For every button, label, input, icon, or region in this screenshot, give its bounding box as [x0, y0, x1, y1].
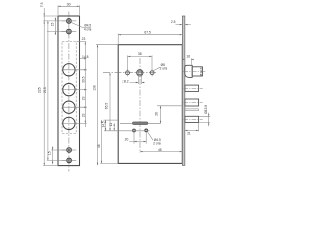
leader dia8 2 holes: [153, 63, 168, 71]
svg-text:2 отв: 2 отв: [153, 141, 161, 145]
cylinder screw hole left: [133, 129, 136, 132]
latch bolt head: [185, 65, 193, 77]
left dim 138 overall: [93, 45, 119, 166]
svg-text:7.5: 7.5: [40, 2, 44, 7]
svg-text:11: 11: [109, 123, 113, 127]
svg-text:30: 30: [67, 2, 71, 6]
svg-text:23: 23: [82, 37, 86, 41]
plate vertical centerline: [68, 12, 70, 172]
dim 67.5 top: [118, 30, 182, 44]
bolt 3: [185, 116, 199, 122]
aux flat bolt: [185, 109, 199, 111]
left dim 11: [109, 123, 115, 131]
svg-text:4 отв: 4 отв: [84, 28, 92, 32]
bottom screw hole 2: [62, 158, 77, 163]
latch centerline: [183, 71, 205, 73]
svg-text:14.5: 14.5: [101, 121, 105, 127]
svg-text:21: 21: [187, 132, 191, 136]
svg-text:Ø14.8: Ø14.8: [199, 67, 203, 76]
body outline: [118, 45, 182, 164]
svg-text:23: 23: [81, 113, 85, 117]
svg-text:Ø15.8: Ø15.8: [204, 105, 208, 114]
keyhole slot: [132, 122, 148, 125]
svg-text:26: 26: [155, 112, 159, 116]
dim 38: [127, 52, 152, 70]
latch barrel: [192, 67, 202, 76]
top screw hole 2: [62, 29, 77, 34]
svg-text:45: 45: [158, 148, 162, 152]
svg-text:20: 20: [125, 137, 129, 141]
big bolt hole 4: [63, 117, 75, 129]
svg-text:65.5: 65.5: [105, 103, 109, 110]
dashed cutout rect: [62, 42, 76, 134]
dim 15 top left: [47, 18, 66, 36]
left dim 46: [97, 120, 118, 163]
svg-text:□8.2: □8.2: [122, 80, 129, 84]
face plate strip edge-on: [182, 16, 185, 165]
dim 15 bottom left: [47, 146, 66, 164]
dim 7.5 left top: [40, 2, 66, 165]
bolt 2: [185, 99, 199, 106]
svg-text:2 отв: 2 отв: [160, 67, 168, 71]
big bolt hole 2: [63, 83, 75, 95]
dim 26 inner vertical: [155, 106, 183, 124]
top screw hole 1: [62, 19, 77, 24]
dim 21 bolt throw: [185, 123, 199, 136]
dim 20: [125, 132, 147, 144]
svg-text:30.5: 30.5: [81, 76, 85, 83]
svg-text:38: 38: [138, 52, 142, 56]
bottom screw hole 1: [62, 148, 77, 153]
body vertical centerline: [139, 58, 141, 153]
svg-text:16: 16: [186, 55, 190, 59]
fixing hole left: [126, 71, 130, 75]
svg-text:23: 23: [81, 96, 85, 100]
bolt 1: [185, 85, 199, 91]
svg-text:46: 46: [97, 144, 101, 148]
svg-text:15: 15: [50, 23, 54, 27]
square hole: [138, 71, 141, 74]
left ext lines: [104, 119, 119, 121]
square hole dim 8.2: [122, 75, 144, 84]
big bolt hole 1: [63, 64, 75, 76]
slot centerline: [120, 122, 161, 124]
left dim 14.5: [101, 120, 106, 131]
leader dia4.5 2 holes: [147, 131, 161, 145]
dim dia15.8 at bolt3: [199, 113, 210, 127]
svg-text:213: 213: [43, 87, 47, 93]
dim 16 latch: [182, 55, 194, 65]
dim 30 top: [58, 2, 80, 15]
spindle hub circle: [137, 70, 143, 76]
dim 2.5 plate thickness: [171, 20, 191, 25]
svg-text:14.8: 14.8: [82, 55, 89, 59]
hub row centerline: [103, 72, 158, 74]
dim 45 bottom: [140, 148, 182, 152]
leader dia4.5 4 holes: [71, 22, 92, 31]
fixing hole right: [150, 71, 154, 75]
big bolt hole 3: [63, 101, 75, 113]
svg-text:15: 15: [47, 151, 51, 155]
svg-text:138: 138: [93, 85, 97, 91]
svg-text:225: 225: [38, 87, 42, 93]
svg-text:67.5: 67.5: [144, 30, 151, 34]
cylinder screw hole right: [145, 129, 148, 132]
left dim 65.5: [105, 73, 111, 131]
right chain dims 23 / 14.8 / 30.5 / 23 / 23: [76, 37, 88, 127]
svg-text:2.5: 2.5: [171, 20, 176, 24]
dim 213 screws left: [43, 21, 48, 161]
dim 225 overall left: [38, 87, 57, 165]
plate outline: [58, 16, 80, 166]
